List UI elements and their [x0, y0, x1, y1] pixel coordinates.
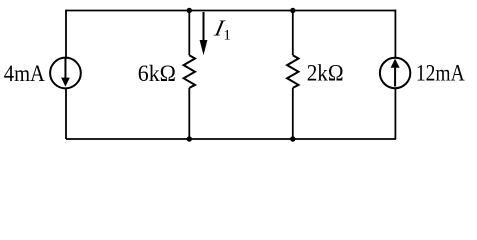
- label 4mA: [4, 61, 45, 86]
- current arrow I1: [200, 12, 208, 55]
- junction node top-left (6k top): [187, 8, 192, 13]
- label 2kOhm: [307, 59, 344, 85]
- wire bottom rail: [66, 138, 396, 140]
- wire left branch vertical: [65, 10, 67, 139]
- wire top rail: [66, 10, 396, 12]
- svg-text:2kΩ: 2kΩ: [307, 59, 344, 85]
- junction node bottom-right (2k bottom): [290, 136, 295, 141]
- wire 6k branch vertical top: [188, 11, 190, 56]
- junction node bottom-left (6k bottom): [187, 136, 192, 141]
- wire 2k branch vertical top: [292, 11, 294, 56]
- svg-text:12mA: 12mA: [416, 60, 465, 86]
- svg-text:1: 1: [223, 28, 231, 44]
- svg-text:6kΩ: 6kΩ: [138, 60, 176, 86]
- resistor 2k ohm (zigzag): [287, 55, 298, 88]
- label 6kOhm: [138, 60, 176, 86]
- wire right branch vertical: [394, 10, 396, 139]
- current source 12mA (right, arrow up): [380, 58, 410, 88]
- svg-text:4mA: 4mA: [4, 61, 45, 86]
- current source 4mA (left, arrow down): [50, 58, 81, 89]
- resistor 6k ohm (zigzag): [184, 55, 195, 88]
- junction node top-right (2k top): [290, 8, 295, 13]
- wire 6k branch vertical bottom: [188, 88, 190, 139]
- label I1: [211, 16, 231, 44]
- wire 2k branch vertical bottom: [292, 88, 294, 139]
- label 12mA: [416, 60, 465, 86]
